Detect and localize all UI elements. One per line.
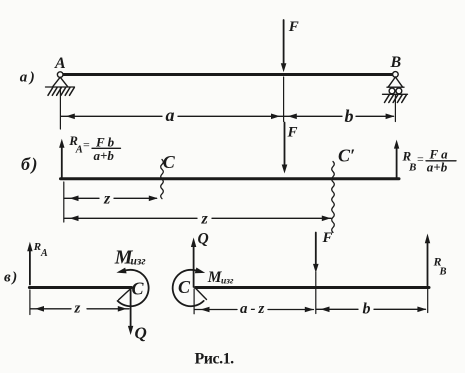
formula R_B = Fa/(a+b) bbox=[402, 146, 449, 174]
dimension b (scheme v right) bbox=[316, 301, 426, 318]
svg-text:изг: изг bbox=[131, 256, 146, 268]
extension line under force F bbox=[283, 77, 285, 122]
svg-text:Q: Q bbox=[135, 324, 147, 343]
extension line left (scheme v left) bbox=[29, 290, 31, 315]
dimension a bbox=[61, 105, 283, 125]
cut wedge (scheme v right) bbox=[196, 289, 207, 300]
svg-text:F: F bbox=[287, 125, 298, 141]
section line C (wavy) bbox=[161, 152, 176, 199]
dimension z to C' bbox=[64, 211, 331, 228]
svg-text:C: C bbox=[132, 278, 145, 298]
beam AB (scheme a) bbox=[63, 73, 393, 76]
node B label bbox=[390, 54, 402, 71]
reaction arrow R_A (scheme b) bbox=[59, 139, 64, 178]
svg-text:C: C bbox=[163, 152, 176, 172]
svg-text:A: A bbox=[40, 248, 48, 259]
label b) bbox=[21, 154, 39, 175]
svg-text:B: B bbox=[439, 267, 447, 278]
reaction arrow R_B (scheme v right) bbox=[425, 234, 447, 286]
label v) bbox=[4, 270, 19, 286]
svg-text:B: B bbox=[390, 54, 402, 71]
extension line under support A bbox=[59, 88, 61, 129]
svg-text:a: a bbox=[166, 105, 175, 125]
svg-text:Q: Q bbox=[198, 231, 209, 248]
svg-text:z: z bbox=[74, 301, 81, 317]
label a) bbox=[20, 70, 38, 86]
beam segment (scheme v right) bbox=[196, 286, 429, 289]
extension line left (scheme b dims) bbox=[63, 182, 65, 222]
section point C (scheme v right) bbox=[178, 277, 191, 297]
beam segment (scheme v left) bbox=[29, 286, 131, 289]
svg-text:B: B bbox=[408, 162, 416, 174]
section point C (scheme v left) bbox=[132, 278, 145, 298]
caption Ris.1. bbox=[195, 350, 235, 367]
force F (scheme v right) bbox=[313, 230, 333, 314]
svg-text:A: A bbox=[54, 55, 66, 72]
svg-text:F: F bbox=[322, 230, 333, 246]
svg-text:F: F bbox=[288, 19, 299, 35]
svg-text:в): в) bbox=[4, 270, 19, 286]
svg-text:z: z bbox=[103, 191, 111, 208]
svg-text:изг: изг bbox=[221, 277, 234, 287]
svg-text:=: = bbox=[83, 138, 90, 152]
svg-text:б): б) bbox=[21, 154, 39, 175]
section line C' (wavy) bbox=[332, 146, 355, 233]
svg-text:Рис.1.: Рис.1. bbox=[195, 350, 235, 367]
shear force Q down (scheme v left) bbox=[128, 289, 147, 343]
fraction bar of R_B formula bbox=[426, 160, 456, 162]
shear force Q up (scheme v right) bbox=[191, 231, 209, 288]
svg-text:A: A bbox=[75, 145, 83, 156]
dimension a-z (scheme v right) bbox=[195, 301, 314, 317]
dimension z (scheme v left) bbox=[30, 301, 129, 317]
dimension b bbox=[284, 106, 395, 126]
svg-text:z: z bbox=[201, 211, 209, 228]
fraction bar of R_A formula bbox=[92, 147, 121, 149]
moment arc M (scheme v left) bbox=[116, 268, 148, 307]
roller support B bbox=[383, 72, 408, 103]
svg-text:а): а) bbox=[20, 70, 38, 86]
extension line under support B bbox=[394, 96, 396, 122]
extension line at cut (scheme v right) bbox=[193, 289, 195, 314]
svg-text:a+b: a+b bbox=[427, 160, 448, 175]
svg-text:C′: C′ bbox=[338, 146, 355, 166]
formula R_A = Fb/(a+b) bbox=[68, 133, 114, 163]
label M_izg (scheme v left) bbox=[114, 247, 146, 269]
reaction arrow R_B (scheme b) bbox=[394, 140, 399, 178]
force F (scheme b) bbox=[282, 123, 298, 174]
cut wedge (scheme v left) bbox=[119, 289, 131, 300]
svg-text:a+b: a+b bbox=[94, 148, 115, 163]
pin support A bbox=[46, 72, 75, 96]
reaction arrow R_A (scheme v left) bbox=[27, 241, 48, 285]
svg-text:=: = bbox=[417, 152, 424, 166]
svg-text:C: C bbox=[178, 277, 191, 297]
force F (scheme a) bbox=[281, 19, 299, 72]
node A label bbox=[54, 55, 66, 72]
svg-text:R: R bbox=[33, 241, 41, 253]
svg-text:a - z: a - z bbox=[240, 301, 265, 317]
label M_izg (scheme v right) bbox=[207, 269, 234, 287]
svg-text:b: b bbox=[363, 301, 371, 318]
dimension z to C bbox=[64, 191, 158, 208]
beam (scheme b) bbox=[61, 177, 400, 180]
svg-text:b: b bbox=[345, 106, 354, 126]
moment arc M (scheme v right) bbox=[173, 268, 206, 307]
extension line right (scheme v right) bbox=[427, 289, 429, 313]
